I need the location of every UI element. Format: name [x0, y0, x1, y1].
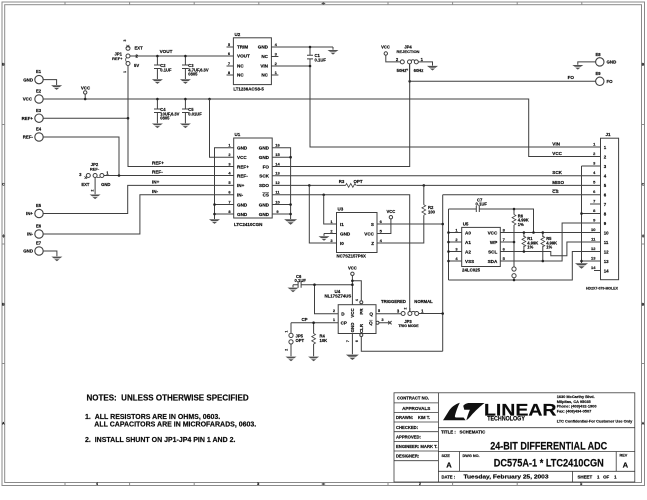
svg-text:3: 3 [593, 161, 596, 166]
svg-text:NC: NC [261, 54, 268, 59]
svg-text:1. ALL RESISTORS ARE IN OHMS,: 1. ALL RESISTORS ARE IN OHMS, 0603. [85, 414, 220, 421]
svg-text:LTC Confidential-For Customer: LTC Confidential-For Customer Use Only [557, 418, 633, 423]
svg-text:12: 12 [591, 246, 596, 251]
svg-text:1: 1 [330, 219, 333, 224]
svg-text:OPT: OPT [296, 338, 305, 343]
svg-text:2: 2 [228, 152, 231, 157]
svg-text:IN+: IN+ [152, 179, 160, 184]
svg-text:DESIGNER:: DESIGNER: [396, 454, 419, 459]
svg-text:0.1UF: 0.1UF [315, 58, 327, 63]
svg-text:0.1UF: 0.1UF [476, 202, 488, 207]
svg-text:5: 5 [378, 308, 381, 313]
svg-text:1: 1 [106, 170, 109, 175]
svg-text:5: 5 [228, 180, 231, 185]
svg-text:VOUT: VOUT [237, 54, 250, 59]
svg-text:E7: E7 [36, 241, 42, 246]
svg-text:4: 4 [355, 299, 359, 301]
svg-text:E9: E9 [595, 71, 601, 76]
svg-text:VCC: VCC [23, 97, 33, 102]
svg-text:4: 4 [96, 482, 98, 486]
svg-text:4: 4 [275, 42, 278, 47]
svg-text:CONTRACT NO.: CONTRACT NO. [397, 396, 429, 401]
svg-text:LTC2410CGN: LTC2410CGN [234, 222, 262, 227]
svg-text:IN-: IN- [152, 189, 159, 194]
svg-text:9: 9 [593, 218, 596, 223]
svg-text:CP: CP [301, 317, 307, 322]
svg-text:7: 7 [228, 61, 231, 66]
svg-text:1: 1 [275, 70, 278, 75]
svg-text:4: 4 [593, 170, 596, 175]
svg-text:A1: A1 [465, 240, 471, 245]
svg-text:12: 12 [275, 180, 280, 185]
svg-text:4: 4 [380, 238, 383, 243]
svg-text:REF-: REF- [23, 135, 34, 140]
svg-text:TITLE : SCHEMATIC: TITLE : SCHEMATIC [441, 429, 486, 434]
svg-text:7: 7 [593, 199, 596, 204]
svg-text:E5: E5 [36, 203, 42, 208]
svg-text:NORMAL: NORMAL [414, 299, 433, 304]
svg-text:VCC: VCC [348, 265, 357, 270]
svg-text:11: 11 [604, 240, 609, 245]
svg-text:WP: WP [490, 240, 497, 245]
svg-text:Z: Z [371, 241, 374, 246]
svg-text:NC7SZ157P6X: NC7SZ157P6X [337, 253, 367, 258]
svg-text:2: 2 [455, 237, 458, 242]
svg-text:5: 5 [228, 42, 231, 47]
svg-text:2. INSTALL SHUNT ON JP1-JP4 P: 2. INSTALL SHUNT ON JP1-JP4 PIN 1 AND 2. [85, 437, 235, 444]
svg-text:VOUT: VOUT [160, 49, 173, 54]
svg-text:5: 5 [604, 183, 607, 188]
svg-text:J1: J1 [606, 132, 612, 137]
svg-text:4: 4 [455, 256, 458, 261]
svg-text:VIN: VIN [260, 64, 268, 69]
svg-text:3: 3 [330, 238, 333, 243]
svg-text:1: 1 [421, 57, 424, 62]
svg-text:14: 14 [275, 161, 280, 166]
svg-text:Q: Q [369, 321, 373, 326]
svg-text:DATE :: DATE : [442, 475, 456, 480]
svg-text:0.1UF: 0.1UF [295, 278, 307, 283]
svg-text:0805: 0805 [160, 116, 170, 121]
svg-text:6: 6 [604, 192, 607, 197]
svg-text:1: 1 [123, 71, 127, 73]
svg-text:REJECTION: REJECTION [397, 49, 420, 54]
svg-text:GND: GND [237, 146, 248, 151]
svg-text:13: 13 [604, 259, 609, 264]
svg-text:IN-: IN- [237, 193, 244, 198]
svg-text:2: 2 [419, 482, 421, 486]
svg-text:CLR: CLR [359, 323, 364, 333]
svg-text:1: 1 [455, 227, 458, 232]
svg-text:GND: GND [258, 45, 269, 50]
svg-text:6: 6 [593, 189, 596, 194]
svg-text:CS: CS [263, 193, 269, 198]
svg-text:IN-: IN- [27, 232, 33, 237]
svg-text:1: 1 [228, 143, 231, 148]
svg-text:6: 6 [228, 51, 231, 56]
svg-text:3: 3 [604, 164, 607, 169]
svg-text:E1: E1 [36, 69, 42, 74]
svg-text:5V: 5V [134, 63, 139, 68]
svg-text:FO: FO [568, 75, 575, 80]
svg-text:13: 13 [591, 256, 596, 261]
svg-text:0805: 0805 [188, 72, 198, 77]
svg-text:1: 1 [593, 142, 596, 147]
svg-text:GND: GND [101, 182, 110, 187]
svg-text:10K: 10K [320, 338, 328, 343]
svg-text:U3: U3 [338, 207, 344, 212]
svg-text:7: 7 [228, 199, 231, 204]
svg-text:U5: U5 [463, 221, 469, 226]
svg-text:GND: GND [350, 323, 355, 333]
svg-text:VCC: VCC [237, 155, 247, 160]
svg-text:1: 1 [285, 330, 289, 332]
svg-text:1: 1 [421, 308, 424, 313]
svg-text:3: 3 [381, 317, 384, 322]
svg-text:VCC: VCC [364, 231, 374, 236]
svg-text:OPT: OPT [353, 179, 362, 184]
svg-text:EXT: EXT [81, 182, 90, 187]
svg-text:5: 5 [380, 228, 383, 233]
svg-text:1: 1 [580, 482, 582, 486]
svg-text:REF+: REF+ [22, 116, 34, 121]
svg-text:7: 7 [346, 340, 350, 342]
svg-text:8: 8 [228, 70, 231, 75]
svg-text:SCL: SCL [488, 249, 497, 254]
svg-text:GND: GND [23, 249, 33, 254]
svg-text:U2: U2 [235, 32, 241, 37]
svg-text:10: 10 [591, 227, 596, 232]
svg-text:GND: GND [237, 202, 248, 207]
svg-text:16: 16 [275, 143, 280, 148]
svg-text:2: 2 [330, 228, 333, 233]
svg-text:REF-: REF- [90, 166, 100, 171]
svg-text:E8: E8 [595, 52, 601, 57]
svg-text:FO: FO [607, 79, 614, 84]
svg-text:1%: 1% [527, 245, 533, 250]
svg-text:REF+: REF+ [237, 164, 249, 169]
svg-text:DRAWN: KIM T.: DRAWN: KIM T. [396, 415, 430, 420]
svg-text:APPROVED:: APPROVED: [396, 435, 421, 440]
svg-text:PR: PR [359, 308, 364, 315]
svg-text:5: 5 [503, 256, 506, 261]
svg-text:2: 2 [91, 189, 95, 191]
svg-text:7: 7 [604, 202, 607, 207]
svg-text:6: 6 [228, 190, 231, 195]
svg-text:NC: NC [261, 73, 268, 78]
svg-text:15: 15 [275, 152, 280, 157]
svg-text:SDO: SDO [259, 183, 269, 188]
svg-text:GND: GND [23, 77, 33, 82]
svg-text:100: 100 [428, 210, 436, 215]
svg-text:4: 4 [228, 171, 231, 176]
svg-text:REF-: REF- [152, 169, 163, 174]
svg-text:3: 3 [123, 40, 127, 42]
svg-text:11: 11 [275, 190, 280, 195]
svg-text:DWG NO.: DWG NO. [463, 454, 480, 458]
svg-text:VIN: VIN [552, 141, 560, 146]
svg-text:24-BIT DIFFERENTIAL ADC: 24-BIT DIFFERENTIAL ADC [490, 440, 607, 452]
svg-text:8: 8 [228, 209, 231, 214]
svg-text:REF-: REF- [237, 174, 248, 179]
svg-text:TRIM: TRIM [237, 45, 248, 50]
svg-text:I1: I1 [340, 222, 344, 227]
svg-text:SHEET 1 OF 1: SHEET 1 OF 1 [578, 475, 618, 480]
svg-text:VCC: VCC [350, 308, 355, 318]
svg-text:D: D [341, 312, 345, 317]
svg-text:E4: E4 [36, 127, 42, 132]
svg-text:1: 1 [333, 317, 336, 322]
svg-text:8: 8 [604, 211, 607, 216]
svg-text:REV: REV [620, 454, 628, 458]
svg-text:3: 3 [228, 161, 231, 166]
svg-text:2: 2 [593, 151, 596, 156]
svg-text:13: 13 [275, 171, 280, 176]
svg-text:APPROVALS: APPROVALS [402, 406, 430, 411]
svg-text:DC575A-1 * LTC2410CGN: DC575A-1 * LTC2410CGN [494, 458, 604, 470]
svg-text:GND: GND [340, 231, 351, 236]
svg-text:2: 2 [396, 57, 399, 62]
svg-text:1%: 1% [546, 245, 552, 250]
svg-text:2: 2 [405, 68, 409, 70]
svg-text:2: 2 [604, 154, 607, 159]
svg-text:1: 1 [604, 145, 607, 150]
svg-text:7: 7 [503, 237, 506, 242]
svg-text:GND: GND [607, 60, 617, 65]
svg-text:VSS: VSS [465, 259, 474, 264]
svg-text:10: 10 [604, 230, 609, 235]
svg-text:NC: NC [237, 64, 244, 69]
svg-text:E6: E6 [36, 224, 42, 229]
svg-text:VCC: VCC [381, 44, 390, 49]
svg-text:CHECKED:: CHECKED: [396, 425, 418, 430]
svg-text:MISO: MISO [552, 180, 564, 185]
svg-text:9: 9 [604, 221, 607, 226]
svg-text:GND: GND [237, 212, 248, 217]
svg-text:3: 3 [455, 246, 458, 251]
svg-text:VCC: VCC [552, 151, 562, 156]
svg-text:2: 2 [404, 307, 408, 309]
svg-text:11: 11 [591, 237, 596, 242]
svg-text:SCK: SCK [552, 170, 562, 175]
svg-text:2: 2 [275, 61, 278, 66]
svg-text:8: 8 [593, 208, 596, 213]
svg-text:GND: GND [259, 155, 270, 160]
svg-text:EXT: EXT [135, 45, 144, 50]
svg-text:GND: GND [259, 146, 270, 151]
svg-text:REF+: REF+ [112, 56, 123, 61]
svg-text:9: 9 [276, 209, 279, 214]
svg-text:6: 6 [503, 246, 506, 251]
svg-text:Fax: (408)434-0507: Fax: (408)434-0507 [557, 408, 592, 413]
svg-text:5: 5 [593, 180, 596, 185]
svg-text:60Hz: 60Hz [414, 68, 424, 73]
svg-text:3: 3 [397, 308, 400, 313]
svg-text:A: A [446, 461, 452, 470]
svg-text:FO: FO [263, 164, 270, 169]
svg-text:TECHNOLOGY: TECHNOLOGY [487, 417, 525, 423]
svg-text:3: 3 [257, 482, 259, 486]
svg-text:6: 6 [380, 219, 383, 224]
svg-text:REF+: REF+ [152, 160, 164, 165]
svg-text:4: 4 [604, 173, 607, 178]
svg-text:2: 2 [333, 308, 336, 313]
svg-text:24LC025: 24LC025 [462, 267, 481, 272]
svg-text:GND: GND [259, 202, 270, 207]
svg-text:HD2X7-079-MOLEX: HD2X7-079-MOLEX [586, 285, 618, 290]
svg-text:I0: I0 [340, 241, 344, 246]
svg-text:VCC: VCC [488, 230, 498, 235]
svg-text:E2: E2 [36, 89, 42, 94]
svg-text:VCC: VCC [81, 86, 91, 91]
svg-text:A0: A0 [465, 230, 471, 235]
svg-text:1%: 1% [518, 222, 524, 227]
svg-text:6: 6 [355, 340, 359, 342]
svg-text:IN+: IN+ [237, 183, 245, 188]
svg-text:ALL CAPACITORS ARE IN MICROFAR: ALL CAPACITORS ARE IN MICROFARADS, 0603. [94, 421, 256, 428]
svg-text:TRIGGERED: TRIGGERED [381, 299, 406, 304]
svg-text:SDA: SDA [488, 259, 498, 264]
svg-text:3: 3 [79, 172, 82, 177]
svg-text:S: S [371, 222, 374, 227]
svg-text:Tuesday, February 25, 2003: Tuesday, February 25, 2003 [464, 474, 549, 480]
svg-text:LT1236ACS8-5: LT1236ACS8-5 [233, 87, 264, 92]
svg-text:E3: E3 [36, 108, 42, 113]
svg-text:10: 10 [275, 199, 280, 204]
svg-text:U1: U1 [235, 132, 241, 137]
svg-text:8: 8 [503, 227, 506, 232]
svg-text:A2: A2 [465, 249, 471, 254]
svg-text:A: A [623, 461, 629, 470]
svg-text:IN+: IN+ [26, 211, 33, 216]
svg-text:SCK: SCK [259, 174, 269, 179]
svg-text:SIZE: SIZE [442, 454, 451, 458]
svg-text:GND: GND [259, 212, 270, 217]
svg-text:3: 3 [275, 51, 278, 56]
svg-text:14: 14 [591, 265, 596, 270]
svg-text:NC: NC [237, 73, 244, 78]
svg-text:0.01UF: 0.01UF [188, 111, 202, 116]
svg-text:R3: R3 [339, 179, 345, 184]
svg-text:NOTES: UNLESS OTHERWISE SPECI: NOTES: UNLESS OTHERWISE SPECIFIED [87, 394, 249, 403]
svg-text:NL17SZ74US: NL17SZ74US [325, 294, 352, 299]
svg-text:14: 14 [604, 268, 609, 273]
svg-text:CP: CP [341, 321, 347, 326]
svg-text:0.1UF: 0.1UF [160, 67, 172, 72]
svg-text:Q: Q [369, 312, 373, 317]
svg-text:12: 12 [604, 249, 609, 254]
svg-text:ENGINEER: MARK T.: ENGINEER: MARK T. [396, 444, 437, 449]
svg-text:VCC: VCC [386, 209, 395, 214]
svg-text:2: 2 [285, 349, 289, 351]
svg-text:TRIG MODE: TRIG MODE [398, 324, 419, 328]
